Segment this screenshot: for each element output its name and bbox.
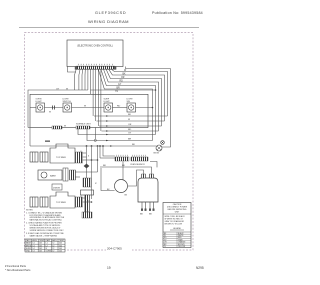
terminal connector TB2 (hatched, on box bottom edge)	[76, 123, 91, 129]
wire labels on right fan	[115, 70, 127, 93]
footer functional parts note	[5, 264, 31, 272]
svg-text:BAKE: BAKE	[26, 242, 32, 245]
svg-text:LEGEND: LEGEND	[173, 228, 182, 230]
svg-text:12: 12	[52, 251, 54, 253]
wires turning right from EOC to right-side verticals	[98, 69, 167, 140]
svg-text:BK BK: BK BK	[154, 153, 160, 155]
wires from SW1 to bus	[83, 153, 98, 160]
wire label between	[117, 106, 121, 108]
svg-text:TN: TN	[115, 91, 118, 93]
svg-text:105: 105	[59, 251, 62, 253]
svg-text:BR: BR	[117, 88, 121, 90]
left vertical wire from border	[28, 90, 88, 146]
SW1 connector (hatched)	[76, 152, 83, 163]
E1 connector (hatched)	[70, 170, 76, 180]
svg-text:GND: GND	[26, 251, 31, 253]
dashed page border	[25, 33, 194, 251]
E1 wires right	[76, 147, 98, 177]
SW2 wires right	[83, 198, 92, 202]
stub label left mid	[45, 141, 50, 142]
svg-text:AWG: AWG	[32, 239, 37, 242]
svg-text:YELLOW: YELLOW	[178, 246, 185, 248]
svg-text:SAME GAUGE + TEMP RATING: SAME GAUGE + TEMP RATING	[30, 234, 58, 237]
disconnect symbol on wire	[49, 106, 87, 114]
svg-text:TOP BNR: TOP BNR	[56, 157, 66, 159]
legend / caution box bottom right	[163, 203, 191, 249]
svg-text:TEMP: TEMP	[39, 240, 45, 242]
C1 terminals	[141, 209, 155, 211]
wire gauge table bottom left	[25, 239, 65, 253]
svg-text:BK: BK	[123, 74, 127, 76]
wire label GY on bus	[56, 88, 69, 90]
E1 wattage label box	[52, 184, 62, 190]
surface light switch S2	[127, 99, 136, 112]
C1 labels	[140, 214, 152, 216]
svg-text:YL: YL	[164, 246, 166, 248]
header horizontal rule	[19, 27, 199, 29]
wire: left switch outputs dropping down	[91, 147, 93, 199]
svg-text:NATIONAL ELECTRICAL CODE REQ.: NATIONAL ELECTRICAL CODE REQ.	[30, 219, 63, 222]
svg-text:RD: RD	[128, 129, 132, 131]
svg-text:OVEN: OVEN	[46, 251, 52, 253]
svg-text:* Non-Illustrated Parts: * Non-Illustrated Parts	[5, 268, 31, 272]
wire: EOC riser to right nest	[126, 67, 171, 148]
E2 X marker	[95, 181, 97, 185]
svg-text:RD: RD	[117, 106, 121, 108]
stub wire to open junction circle	[94, 128, 96, 140]
C1 lead wires below	[142, 202, 154, 210]
svg-text:GLEF396CSD: GLEF396CSD	[95, 11, 126, 15]
svg-text:OVEN SENSOR: OVEN SENSOR	[130, 164, 145, 166]
header WIRING DIAGRAM title	[88, 19, 129, 24]
svg-text:GY: GY	[118, 84, 122, 86]
wire between L2 and S2	[113, 107, 154, 109]
oven light L1	[36, 99, 45, 112]
surface light L2	[104, 99, 113, 112]
EOC connector strip P1 (hatched)	[75, 66, 117, 69]
svg-text:BR: BR	[128, 139, 131, 141]
svg-text:PART: PART	[46, 239, 52, 242]
wire between L1 and S1 with disconnect	[30, 107, 104, 109]
svg-text:WIRING DIAGRAM: WIRING DIAGRAM	[88, 19, 129, 24]
light switch S1	[63, 99, 72, 112]
svg-text:BROWN YL YELLOW: BROWN YL YELLOW	[165, 224, 183, 226]
wire from motor area to C1	[100, 162, 157, 187]
svg-text:TEMP: TEMP	[59, 240, 65, 242]
op: electronic oven control box U1	[67, 40, 123, 67]
drawing number label	[106, 246, 132, 251]
broil element E2 (vertical ladder)	[81, 178, 94, 218]
convection motor M1	[100, 146, 128, 196]
svg-text:N295: N295	[196, 266, 204, 270]
svg-text:105: 105	[39, 251, 42, 253]
notes text block	[26, 210, 65, 238]
footer doc code	[196, 266, 204, 270]
svg-text:NOTES:: NOTES:	[26, 210, 34, 212]
wire: horizontal bus above component box	[91, 89, 157, 94]
svg-text:TOP BNR: TOP BNR	[56, 202, 66, 204]
svg-text:RD: RD	[120, 81, 124, 83]
svg-text:AWG: AWG	[52, 239, 57, 242]
E1 pin block	[63, 168, 68, 181]
svg-text:# Functional Parts: # Functional Parts	[5, 264, 27, 268]
terminal connector TB1 (hatched, on box bottom edge)	[52, 126, 67, 129]
junction circle with X	[161, 141, 165, 145]
EOC pin number tick row	[79, 64, 113, 66]
svg-text:BAKE: BAKE	[50, 174, 56, 177]
header model number text	[95, 11, 126, 15]
SW2 connector (hatched)	[76, 197, 83, 207]
bus labels	[128, 114, 135, 146]
capacitor / relay box C1	[138, 174, 158, 202]
svg-text:2585W: 2585W	[53, 188, 61, 190]
svg-text:204-C7905: 204-C7905	[107, 247, 122, 251]
svg-text:3-WIRE SERVICE CONNECTION ONLY: 3-WIRE SERVICE CONNECTION ONLY	[30, 230, 65, 232]
svg-text:OR: OR	[121, 77, 125, 79]
surface burner switch SW2 body	[30, 192, 75, 208]
surface burner switch SW1 body	[30, 144, 75, 163]
wire fan: vertical wires from EOC connector	[68, 67, 101, 132]
svg-text:(ELECTRONIC OVEN CONTROL): (ELECTRONIC OVEN CONTROL)	[77, 46, 113, 48]
oven lamp B1 (circle)	[154, 145, 163, 155]
svg-text:PART: PART	[26, 239, 32, 242]
svg-text:SURFACE UNIT: SURFACE UNIT	[76, 123, 91, 126]
E2 junction diamond	[84, 147, 90, 178]
bus inline connector marks	[106, 115, 112, 147]
SW1 wire labels	[81, 151, 91, 157]
middle horizontal wire bus stack	[30, 116, 168, 146]
header publication number text	[152, 11, 203, 15]
component box (lights/switches row)	[30, 94, 148, 127]
svg-text:Publication No: 5995439584: Publication No: 5995439584	[152, 11, 203, 15]
bake element E1	[38, 170, 62, 180]
footer page number	[107, 266, 111, 270]
svg-text:W: W	[49, 112, 51, 114]
svg-text:GY: GY	[128, 133, 132, 135]
svg-text:19: 19	[107, 266, 111, 270]
svg-text:OR: OR	[128, 124, 132, 126]
svg-text:14: 14	[32, 251, 34, 253]
junction dots on left verticals	[86, 139, 104, 203]
oven sensor connector row (hatched)	[100, 155, 148, 166]
